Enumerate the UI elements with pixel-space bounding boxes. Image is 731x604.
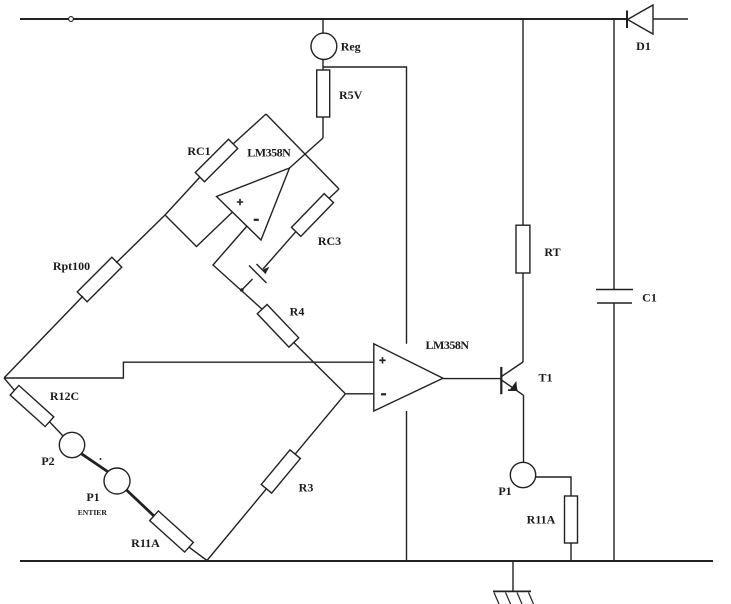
svg-text:R4: R4 <box>290 305 305 319</box>
svg-text:P2: P2 <box>41 454 54 468</box>
node small connector dot on top rail <box>69 17 74 22</box>
wire diode right lead <box>653 18 688 20</box>
diode D1 triangle <box>628 5 654 34</box>
wire diamond top-right edge <box>266 114 339 189</box>
ground hatch 2 <box>506 593 511 604</box>
transistor T1 emitter arrow base dash <box>508 389 518 391</box>
wire Reg to R5V <box>322 59 324 70</box>
svg-text:Reg: Reg <box>341 39 361 53</box>
svg-text:P1: P1 <box>498 484 511 498</box>
wire feedback vertical lower part to bottom rail <box>406 411 408 561</box>
ground bar <box>493 590 531 592</box>
wire op-amp U1 output diagonal <box>290 138 324 168</box>
svg-text:RC1: RC1 <box>187 144 210 158</box>
wire left apex to R12C <box>4 378 15 390</box>
svg-text:R11A: R11A <box>131 536 160 550</box>
battery long plate <box>249 266 267 284</box>
wire battery to junction <box>242 279 253 290</box>
svg-text:ENTIER: ENTIER <box>78 508 108 517</box>
wire right vertex to RC3 <box>329 189 339 198</box>
wire top rail to Reg circle <box>322 19 324 33</box>
wire right vertical upper <box>613 19 615 289</box>
wire thick wiper P1 to R11A <box>127 490 155 516</box>
wire U2 output to T1 base <box>443 378 501 380</box>
resistor R3 <box>261 450 300 493</box>
wire bottom ground rail <box>20 560 713 562</box>
circle P2 <box>59 432 84 457</box>
label U2 minus marker <box>381 393 386 395</box>
node tiny dot above wiper <box>100 458 102 460</box>
circle P1 <box>104 468 130 494</box>
wire bottom apex to R3 <box>207 489 266 561</box>
resistor RC3 <box>291 194 333 237</box>
label U1 minus marker <box>254 219 259 221</box>
capacitor C1 top plate <box>596 289 633 291</box>
wire Rpt100 to left apex <box>4 296 83 378</box>
wire emitter down to P1 <box>523 395 525 462</box>
wire branch from Reg node to feedback vertical <box>323 67 407 344</box>
svg-text:R3: R3 <box>299 481 314 495</box>
ground lead <box>512 561 514 591</box>
svg-text:T1: T1 <box>538 371 552 385</box>
resistor R12C <box>10 385 54 426</box>
wire RC3 to battery lead <box>263 232 296 269</box>
transistor T1 emitter arrowhead <box>510 381 517 390</box>
resistor R11A right <box>565 496 578 543</box>
resistor R5V <box>317 70 330 117</box>
svg-text:P1: P1 <box>86 490 99 504</box>
circle P1 right <box>510 462 535 487</box>
svg-text:R5V: R5V <box>339 88 363 102</box>
transistor T1 collector diagonal <box>502 362 524 377</box>
wire collector up to RT <box>522 273 524 362</box>
wire RT to top rail <box>522 19 524 225</box>
resistor R4 <box>257 304 298 347</box>
resistor R11A left <box>150 511 194 552</box>
svg-text:RC3: RC3 <box>318 234 341 248</box>
wire thick wiper P2 to P1 <box>82 454 108 472</box>
transistor T1 base bar <box>500 367 502 394</box>
capacitor C1 bottom plate <box>597 302 632 304</box>
ground hatch 1 <box>494 593 499 604</box>
wire bridge right apex to minus input of U2 <box>345 393 373 395</box>
battery arrowhead on lead <box>262 267 270 274</box>
transistor T1 emitter diagonal <box>502 380 524 395</box>
ground hatch 4 <box>529 593 534 604</box>
ground hatch 3 <box>517 593 522 604</box>
svg-text:LM358N: LM358N <box>426 338 470 352</box>
wire top vertex to RC1 <box>233 114 266 144</box>
op-amp U1 triangle <box>217 168 290 240</box>
circle Reg <box>311 33 337 59</box>
wire P1 to R11A right <box>536 477 571 496</box>
wire R3 to right apex <box>295 394 345 454</box>
label U1 plus marker <box>237 199 243 205</box>
svg-text:LM358N: LM358N <box>247 146 291 160</box>
wire top supply rail <box>20 18 627 20</box>
wire op-amp U1 minus input path <box>213 226 262 310</box>
wire op-amp U1 plus input path <box>165 213 232 247</box>
wire R11A right to bottom rail <box>570 543 572 561</box>
wire right vertical lower <box>613 303 615 561</box>
wire R5V to output bend <box>322 117 324 138</box>
label U2 plus marker <box>379 357 385 363</box>
wire left vertex to Rpt100 <box>116 215 165 263</box>
diode D1 cathode bar <box>626 11 628 29</box>
battery short plate <box>257 264 267 274</box>
svg-text:D1: D1 <box>636 39 651 53</box>
wire R4 to bridge right apex <box>294 342 346 394</box>
wire R11A to bottom apex <box>189 547 207 560</box>
wire RC1 to left vertex <box>165 177 200 215</box>
node battery junction <box>240 288 244 292</box>
svg-text:RT: RT <box>544 245 560 259</box>
wire bridge left apex to plus input of U2 <box>4 362 374 378</box>
op-amp U2 triangle <box>374 344 443 411</box>
svg-text:Rpt100: Rpt100 <box>53 259 90 273</box>
svg-text:C1: C1 <box>642 290 657 304</box>
resistor RC1 <box>195 139 237 181</box>
resistor RT <box>516 225 530 273</box>
svg-text:R12C: R12C <box>50 389 79 403</box>
wire R12C to P2 <box>50 422 64 436</box>
svg-text:R11A: R11A <box>527 513 556 527</box>
resistor Rpt100 <box>77 257 122 302</box>
